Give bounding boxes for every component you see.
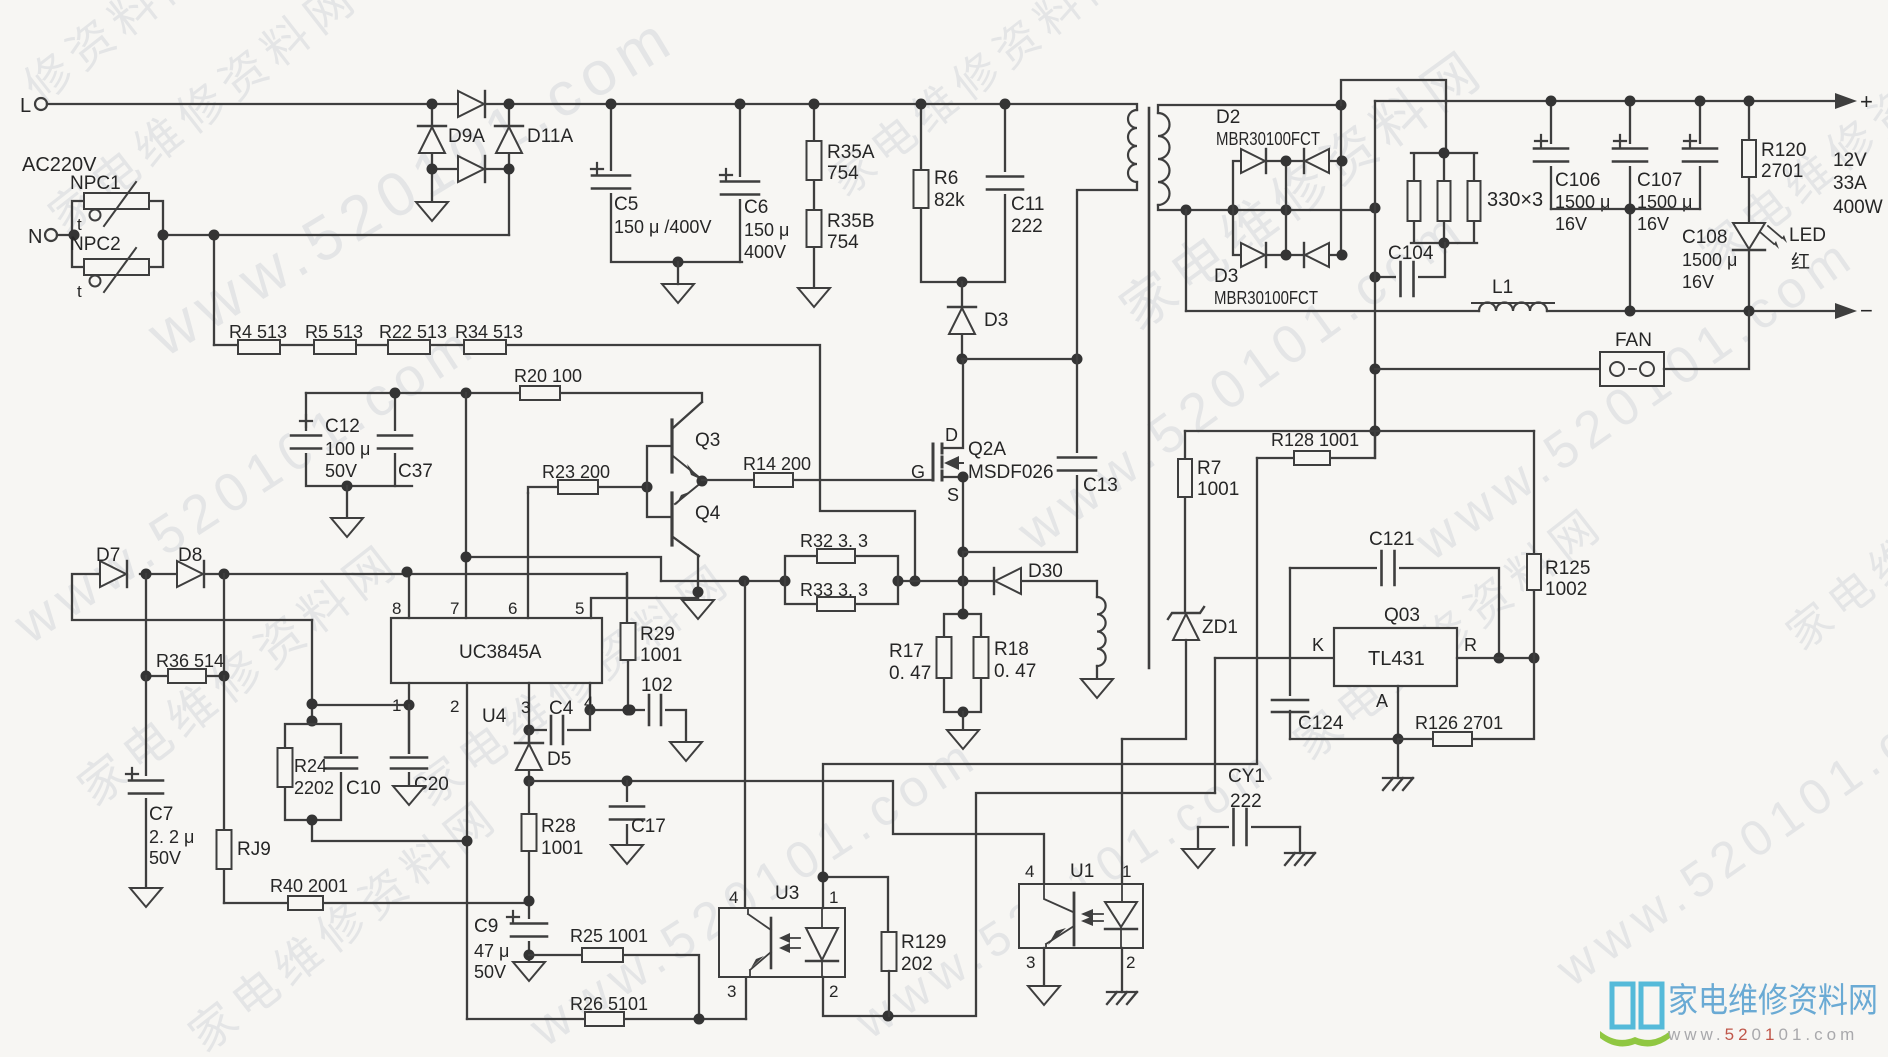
svg-text:Q4: Q4 (695, 503, 721, 524)
svg-text:2: 2 (1126, 953, 1135, 972)
svg-text:R4 513: R4 513 (229, 322, 287, 342)
svg-text:t: t (77, 282, 82, 301)
svg-text:家电维修资料网: 家电维修资料网 (1668, 982, 1878, 1020)
LED red indicator (1733, 223, 1826, 273)
svg-text:R129: R129 (901, 932, 946, 953)
svg-text:100 μ: 100 μ (325, 439, 370, 459)
capacitor C11 222 (985, 172, 1044, 237)
resistor R18 0.47 (974, 637, 1037, 682)
wire secondary bottom lead (1158, 205, 1186, 210)
wire C12 branch (306, 393, 412, 486)
capacitor C5 150u/400V (590, 163, 711, 237)
resistor R26 5101 (467, 994, 746, 1026)
svg-text:A: A (1376, 691, 1388, 711)
diode D3 left (1241, 243, 1265, 267)
svg-text:−: − (1860, 298, 1873, 323)
capacitor 102 (641, 675, 673, 727)
pin 1 (408, 683, 410, 759)
svg-text:R23 200: R23 200 (542, 462, 610, 482)
wire CY1 left to ground (1197, 827, 1199, 849)
svg-text:6: 6 (508, 599, 517, 618)
resistor R4 513 (229, 322, 287, 354)
svg-text:1: 1 (1122, 862, 1131, 881)
diode D11A vertical diode (496, 127, 522, 153)
wire rectifier right bracket (1340, 105, 1342, 255)
svg-text:R35A: R35A (827, 142, 875, 163)
svg-text:C6: C6 (744, 197, 768, 218)
svg-text:3: 3 (1026, 953, 1035, 972)
diode D7 (96, 545, 127, 587)
diode D9A lower horizontal diode (458, 156, 484, 182)
svg-text:RJ9: RJ9 (237, 839, 271, 860)
capacitor C104 (1375, 243, 1445, 298)
svg-text:2701: 2701 (1761, 161, 1803, 182)
thermistor network frame (72, 201, 163, 267)
svg-text:R22 513: R22 513 (379, 322, 447, 342)
ground below C12 C37 (342, 481, 353, 492)
resistor R28 1001 (522, 814, 584, 859)
capacitor C7 2.2u 50V (126, 768, 194, 868)
svg-text:R34 513: R34 513 (455, 322, 523, 342)
pin 8 (408, 572, 410, 618)
wire U3 pin4 riser (744, 581, 746, 908)
logo book icon (1600, 984, 1670, 1046)
svg-text:C104: C104 (1388, 243, 1434, 264)
svg-text:12V: 12V (1833, 150, 1867, 171)
resistor R32 3.3 (800, 531, 868, 563)
thermistor NPC1 (70, 173, 149, 234)
parallel resistors R17 R18 frame (944, 614, 981, 712)
svg-text:754: 754 (827, 232, 859, 253)
svg-text:0. 47: 0. 47 (994, 661, 1036, 682)
svg-text:U3: U3 (775, 883, 799, 904)
svg-text:C13: C13 (1083, 475, 1118, 496)
wire R29 branch (627, 573, 628, 710)
svg-text:150 μ /400V: 150 μ /400V (614, 217, 711, 237)
ground below R35B (798, 288, 830, 307)
svg-text:R35B: R35B (827, 211, 875, 232)
ground below aux winding (1081, 679, 1113, 698)
svg-text:R5 513: R5 513 (305, 322, 363, 342)
wire FAN right to minus rail (1664, 311, 1749, 369)
svg-text:R26 5101: R26 5101 (570, 994, 648, 1014)
resistor R23 200 (528, 462, 647, 494)
wire U3 pin1 node (823, 764, 1257, 932)
wire D3 branch to drain node (961, 282, 963, 359)
wire aux VCC to sense jog (466, 557, 661, 581)
resistor R25 1001 (529, 926, 699, 1019)
svg-text:+: + (1860, 89, 1873, 114)
wire D5 anode row to U1 pin4 (529, 781, 1044, 884)
wire U3 pin3 stub (745, 977, 747, 1019)
ground below C5 C6 (662, 284, 694, 303)
svg-text:C124: C124 (1298, 713, 1344, 734)
wire rectifier mid row (1186, 209, 1375, 211)
svg-text:L: L (20, 95, 31, 117)
wire U1 pin3 to ground (1043, 948, 1045, 986)
resistor R35A 754 (807, 141, 875, 184)
wire Q2A drain lead (942, 359, 963, 448)
wire R row to R125 (1457, 657, 1534, 659)
wire secondary top lead (1158, 105, 1341, 113)
svg-text:C17: C17 (631, 816, 666, 837)
svg-text:D11A: D11A (527, 126, 573, 147)
wire source to R17 R18 (962, 552, 964, 614)
svg-text:R6: R6 (934, 168, 958, 189)
ground below R17 R18 (962, 712, 964, 730)
wire cap bottom bus (1551, 209, 1700, 311)
ground below C20 (393, 786, 425, 805)
svg-text:UC3845A: UC3845A (459, 642, 542, 663)
resistor R120 2701 (1742, 140, 1806, 182)
wire R36 branch verticals (146, 574, 224, 676)
capacitor C37 (376, 431, 433, 482)
wire R7 R128 top node (1185, 430, 1375, 432)
svg-text:红: 红 (1791, 251, 1810, 273)
svg-text:1001: 1001 (640, 645, 682, 666)
svg-text:D2: D2 (1216, 107, 1240, 128)
capacitor C107 1500u 16V (1611, 135, 1692, 234)
capacitor C106 1500u 16V (1532, 135, 1610, 234)
svg-text:C107: C107 (1637, 170, 1682, 191)
label output rating (1833, 150, 1883, 218)
wire secondary return to minus rail (1185, 210, 1187, 311)
output arrow minus (1835, 303, 1857, 319)
svg-text:C11: C11 (1011, 194, 1044, 215)
wire C5 branch (611, 104, 742, 262)
svg-text:www.520101.com: www.520101.com (1667, 1025, 1858, 1044)
wire R125 top link (1375, 430, 1534, 432)
capacitor C17 (608, 781, 666, 845)
wire U1 pin2 to chassis (1121, 948, 1123, 992)
transistor Q3 (647, 393, 720, 517)
svg-text:C12: C12 (325, 416, 360, 437)
resistor 330x3 a (1408, 181, 1421, 221)
wire R35A R35B branch (813, 104, 815, 288)
svg-text:G: G (911, 462, 925, 482)
svg-text:D3: D3 (1214, 266, 1238, 287)
wire N input to NPC network (57, 234, 72, 236)
pin 7 (465, 393, 467, 618)
resistor R40 2001 (270, 876, 348, 910)
svg-text:D3: D3 (984, 310, 1008, 331)
resistor R22 513 (379, 322, 447, 354)
svg-text:50V: 50V (325, 461, 357, 481)
wire C11 branch (962, 104, 1005, 282)
pin 3 (528, 683, 530, 744)
resistor 330x3 b (1438, 181, 1451, 221)
svg-text:www.520101.com: www.520101.com (3, 312, 488, 656)
wire pin4 102 row (590, 710, 686, 742)
resistor R20 100 (466, 366, 700, 400)
transistor Q2A MSDF026 (911, 425, 1054, 552)
svg-text:C9: C9 (474, 916, 498, 937)
svg-text:16V: 16V (1682, 272, 1714, 292)
output arrow plus (1835, 93, 1857, 109)
svg-text:K: K (1312, 635, 1324, 655)
svg-text:222: 222 (1230, 791, 1262, 812)
resistor R6 82k (914, 168, 966, 211)
svg-text:R32 3. 3: R32 3. 3 (800, 531, 868, 551)
wire C4 row (529, 710, 590, 730)
chassis ground U1 pin2 (1107, 992, 1137, 1004)
svg-text:家电维修资料网: 家电维修资料网 (1778, 397, 1888, 660)
svg-text:R36 514: R36 514 (156, 651, 224, 671)
wire FAN left (1375, 368, 1600, 370)
svg-text:U4: U4 (482, 706, 507, 727)
wire C108 branch (1699, 101, 1701, 209)
svg-text:R25 1001: R25 1001 (570, 926, 648, 946)
svg-text:Q3: Q3 (695, 430, 720, 451)
diode D8 (177, 545, 204, 587)
resistor R128 1001 (1257, 430, 1375, 465)
wire bridge lower diode row (432, 168, 509, 170)
ground below C9 (513, 962, 545, 981)
svg-text:82k: 82k (934, 190, 965, 211)
svg-text:1002: 1002 (1545, 579, 1587, 600)
svg-text:C7: C7 (149, 804, 173, 825)
svg-text:R20 100: R20 100 (514, 366, 582, 386)
pin 5 (591, 598, 698, 618)
wire primary bottom to drain (1077, 182, 1137, 359)
svg-text:Q2A: Q2A (968, 439, 1006, 460)
IC Q03 TL431 (1312, 605, 1477, 711)
svg-text:33A: 33A (1833, 173, 1867, 194)
svg-text:R17: R17 (889, 641, 924, 662)
resistor R7 1001 (1178, 431, 1239, 613)
resistor RJ9 (217, 830, 271, 869)
resistor R17 0.47 (889, 637, 952, 684)
svg-text:330×3: 330×3 (1487, 189, 1543, 211)
svg-text:C4: C4 (549, 698, 574, 719)
svg-text:R7: R7 (1197, 458, 1221, 479)
svg-text:家电维修资料网: 家电维修资料网 (179, 788, 509, 1057)
svg-text:FAN: FAN (1615, 330, 1652, 351)
parallel resistors R32 R33 frame (785, 556, 898, 604)
wire C13 branch (963, 359, 1077, 552)
wire RJ9 branch (223, 676, 225, 903)
svg-text:MBR30100FCT: MBR30100FCT (1214, 288, 1318, 308)
svg-text:R28: R28 (541, 816, 576, 837)
ground below Q4 (682, 600, 714, 619)
svg-text:NPC2: NPC2 (70, 234, 121, 255)
wire bridge left leg (431, 104, 433, 202)
svg-text:TL431: TL431 (1368, 648, 1425, 670)
svg-text:ZD1: ZD1 (1202, 617, 1238, 638)
optocoupler U3 (719, 883, 845, 977)
FAN connector (1600, 330, 1664, 386)
wire R40 row (224, 902, 529, 904)
wire A to chassis ground (1397, 739, 1399, 778)
ground left of CY1 (1182, 849, 1214, 868)
svg-text:1500 μ: 1500 μ (1682, 250, 1737, 270)
svg-text:t: t (77, 215, 82, 234)
wire R120 LED branch (1748, 101, 1750, 311)
wire ZD1 to U1 pin1 (1122, 640, 1186, 739)
wire NPC output to bridge and startup chain (163, 235, 509, 345)
svg-text:R24: R24 (294, 756, 327, 776)
svg-text:Q03: Q03 (1384, 605, 1420, 626)
svg-text:R126 2701: R126 2701 (1415, 713, 1503, 733)
resistor R36 514 (146, 651, 224, 683)
wire drain node row (962, 358, 1077, 360)
svg-text:1001: 1001 (541, 838, 583, 859)
svg-text:2. 2 μ: 2. 2 μ (149, 827, 194, 847)
svg-text:1001: 1001 (1197, 479, 1239, 500)
svg-text:3: 3 (727, 982, 736, 1001)
diode D2 right (1305, 149, 1329, 173)
capacitor C20 (389, 705, 449, 795)
capacitor C6 150u 400V (719, 169, 789, 262)
svg-text:102: 102 (641, 675, 673, 696)
capacitor C13 (1056, 453, 1118, 496)
wire aux bottom to ground (1096, 666, 1098, 679)
svg-text:R33 3. 3: R33 3. 3 (800, 580, 868, 600)
wire U3 pin2 row (823, 793, 1215, 1016)
wire D2 cathode link (1285, 161, 1287, 255)
svg-text:R: R (1464, 635, 1477, 655)
resistor R24 2202 (278, 748, 335, 798)
wire R28 C9 branch (528, 781, 530, 962)
resistor R34 513 (455, 322, 523, 354)
wire A node row (1290, 686, 1398, 739)
capacitor C10 (323, 754, 381, 799)
svg-text:R14 200: R14 200 (743, 454, 811, 474)
wire U1 pin1 riser from ZD1 (1121, 739, 1123, 884)
wire minus rail (1186, 310, 1835, 312)
svg-text:4: 4 (1025, 862, 1034, 881)
svg-text:N: N (28, 226, 42, 248)
ground below bridge (416, 202, 448, 221)
svg-text:150 μ: 150 μ (744, 220, 789, 240)
diode D3 (948, 307, 1008, 334)
wire Q4 collector to ground (697, 581, 699, 600)
transformer T1 secondary winding (1158, 113, 1170, 205)
svg-text:D5: D5 (547, 749, 571, 770)
optocoupler U1 (1019, 861, 1143, 948)
svg-text:2: 2 (829, 982, 838, 1001)
svg-text:MBR30100FCT: MBR30100FCT (1216, 129, 1320, 149)
wire startup chain R4-R34 to sense node (214, 345, 915, 581)
svg-text:C106: C106 (1555, 170, 1600, 191)
resistor R5 513 (305, 322, 363, 354)
svg-text:C5: C5 (614, 194, 638, 215)
svg-text:2: 2 (450, 697, 459, 716)
svg-text:U1: U1 (1070, 861, 1094, 882)
svg-text:MSDF026: MSDF026 (968, 462, 1054, 483)
capacitor C12 100u 50V (289, 415, 370, 481)
zener diode ZD1 (1168, 607, 1238, 640)
wire C121 C124 left riser (1289, 568, 1291, 701)
svg-text:C108: C108 (1682, 227, 1727, 248)
transformer core (1148, 108, 1151, 668)
diode D3 right (1305, 243, 1329, 267)
capacitor C4 (547, 698, 574, 746)
svg-text:NPC1: NPC1 (70, 173, 121, 194)
svg-text:7: 7 (450, 599, 459, 618)
svg-text:C37: C37 (398, 461, 433, 482)
svg-text:5: 5 (575, 599, 584, 618)
chassis ground below TL431 (1383, 778, 1413, 790)
svg-text:L1: L1 (1492, 277, 1513, 298)
svg-text:D9A: D9A (448, 126, 485, 147)
wire R6 branch (921, 104, 962, 282)
IC U4 UC3845A (391, 618, 602, 683)
svg-text:50V: 50V (474, 962, 506, 982)
diode D5 (515, 730, 571, 781)
chassis ground right of CY1 (1285, 853, 1315, 865)
svg-text:2202: 2202 (294, 778, 334, 798)
diode D2 left (1241, 149, 1265, 173)
ground below U1 pin3 (1028, 986, 1060, 1005)
svg-text:R29: R29 (640, 624, 675, 645)
ground below C17 (611, 845, 643, 864)
wire C107 branch (1629, 101, 1631, 209)
svg-text:www.520101.com: www.520101.com (1405, 225, 1867, 573)
wire bridge right leg (508, 104, 510, 235)
wire plus rail (1375, 100, 1835, 102)
svg-text:16V: 16V (1555, 214, 1587, 234)
svg-text:R128 1001: R128 1001 (1271, 430, 1359, 450)
wire C37 branch (394, 393, 396, 486)
capacitor CY1 222 (1198, 766, 1300, 847)
svg-text:50V: 50V (149, 848, 181, 868)
wire K riser from U3 pin2 net (1214, 658, 1216, 793)
svg-text:D30: D30 (1028, 561, 1063, 582)
capacitor C9 47u 50V (474, 911, 549, 982)
diode D9A top horizontal diode (458, 91, 484, 117)
resistor R35B 754 (807, 210, 875, 253)
transformer T1 primary winding (1128, 110, 1137, 182)
capacitor C108 1500u 16V (1681, 135, 1737, 292)
svg-text:754: 754 (827, 163, 859, 184)
ground after 102 (670, 742, 702, 761)
logo site name (1667, 982, 1878, 1044)
wire rectifier left bracket (1233, 161, 1341, 255)
thermistor NPC2 (70, 234, 149, 301)
svg-text:400V: 400V (744, 242, 786, 262)
wire pin1 row and R24 link (312, 620, 409, 724)
diode D9A left vertical diode (419, 127, 445, 153)
svg-text:R18: R18 (994, 639, 1029, 660)
parallel resistors 330x3 frame (1411, 153, 1477, 243)
svg-text:D8: D8 (178, 545, 202, 566)
wire plus riser (1374, 101, 1376, 458)
diode D30 (994, 561, 1097, 597)
svg-text:47 μ: 47 μ (474, 941, 509, 961)
resistor R14 200 (702, 454, 933, 487)
svg-text:0. 47: 0. 47 (889, 663, 931, 684)
svg-text:R125: R125 (1545, 558, 1590, 579)
svg-text:16V: 16V (1637, 214, 1669, 234)
svg-text:222: 222 (1011, 216, 1043, 237)
svg-text:LED: LED (1789, 225, 1826, 246)
svg-text:www.520101.com: www.520101.com (1545, 661, 1888, 998)
wire CY1 right to chassis (1299, 827, 1301, 853)
pin 2 (466, 683, 468, 1019)
svg-text:4: 4 (729, 888, 738, 907)
svg-text:CY1: CY1 (1228, 766, 1265, 787)
wire C12 C37 top rail (306, 392, 466, 394)
wire C7 branch (145, 676, 147, 888)
capacitor C121 (1290, 529, 1499, 658)
svg-text:S: S (947, 485, 959, 505)
resistor 330x3 c (1468, 181, 1481, 221)
svg-text:D: D (945, 425, 958, 445)
terminal N (28, 226, 57, 248)
wire sense row (661, 580, 994, 582)
wire C6 branch (739, 104, 741, 262)
